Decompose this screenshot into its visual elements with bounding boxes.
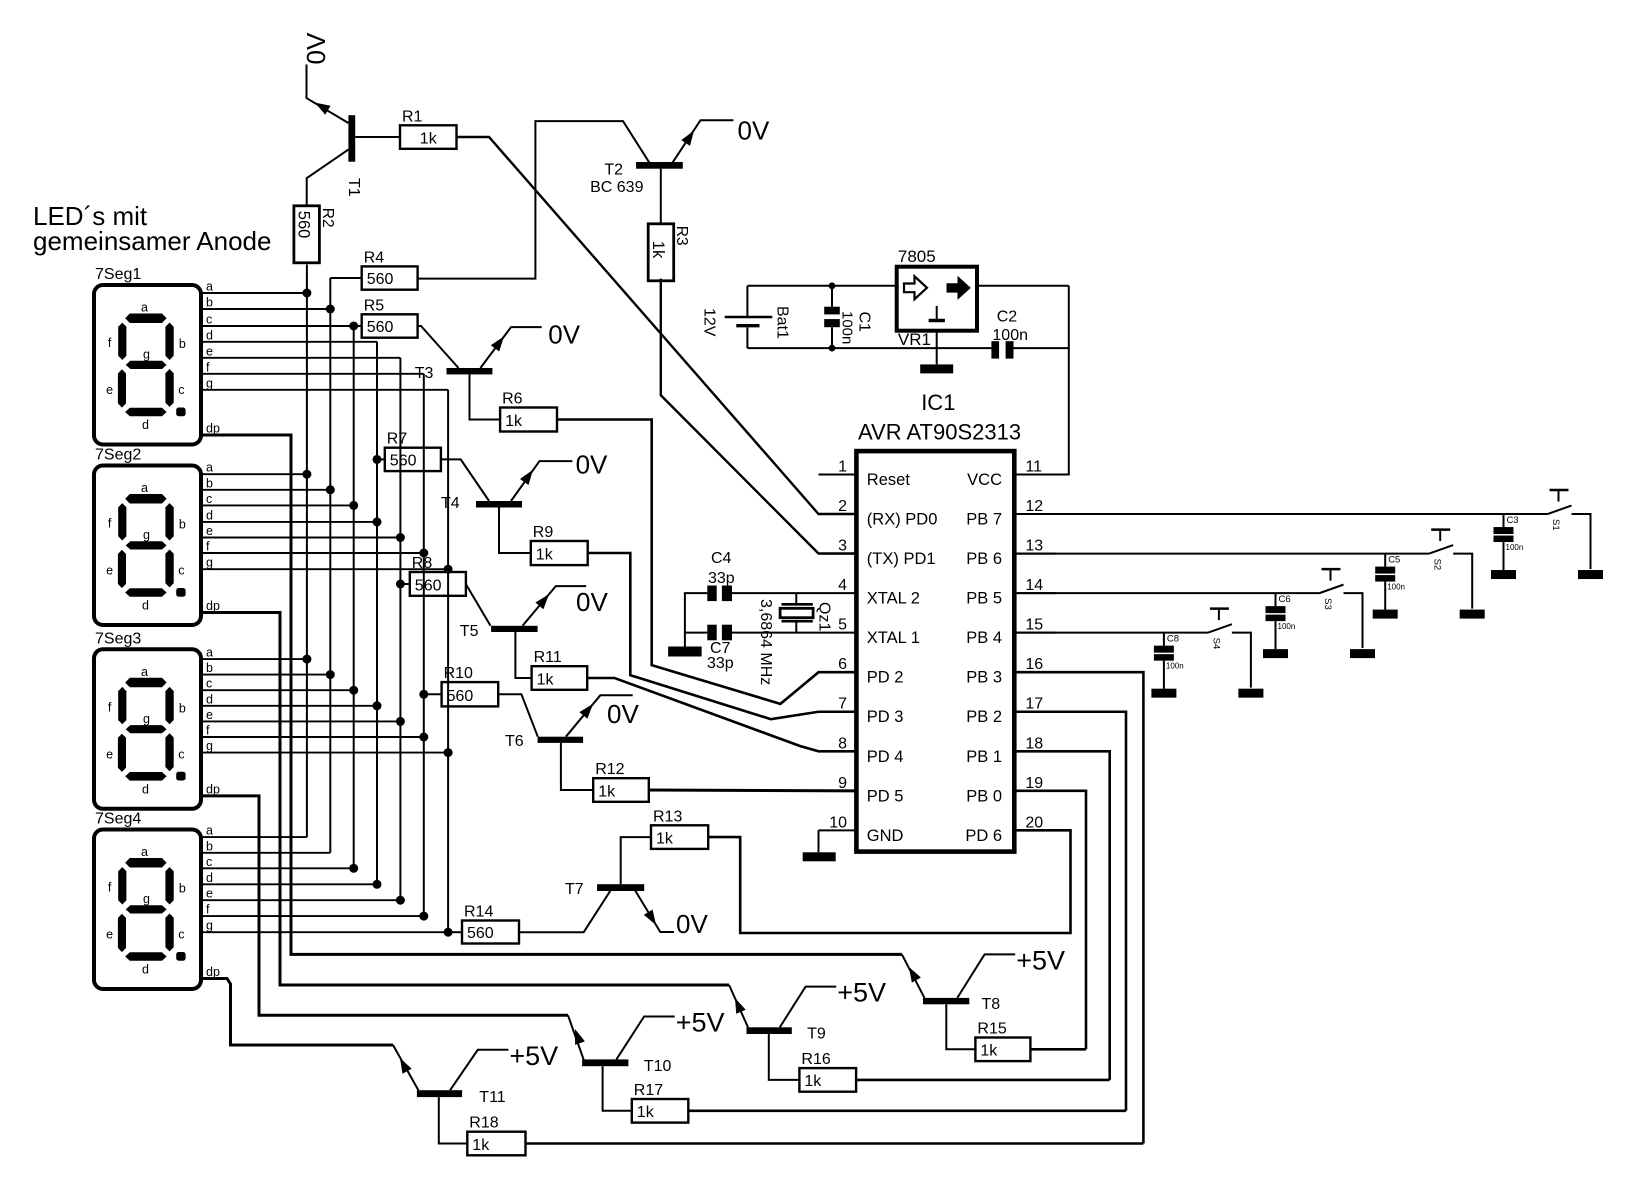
- node bus g 7Seg3: [444, 748, 453, 757]
- svg-text:1k: 1k: [980, 1043, 998, 1060]
- wire 7805 output rail: [977, 285, 1069, 287]
- svg-text:(RX) PD0: (RX) PD0: [867, 511, 938, 529]
- wire IC pin 15 to S4: [1014, 632, 1208, 634]
- svg-text:1k: 1k: [472, 1137, 490, 1154]
- wire 7Seg1 segment e: [201, 357, 400, 359]
- svg-text:IC1: IC1: [921, 390, 955, 415]
- svg-text:+5V: +5V: [509, 1041, 558, 1071]
- svg-text:7Seg4: 7Seg4: [95, 811, 141, 828]
- pin 5 XTAL 1: [819, 617, 921, 648]
- svg-text:R16: R16: [801, 1051, 830, 1068]
- 7-segment display 7Seg2: [94, 447, 220, 626]
- wire T10 collector to +5V: [616, 1017, 674, 1060]
- svg-text:d: d: [142, 599, 149, 613]
- svg-text:c: c: [206, 492, 212, 506]
- node bus g 7Seg4/R14: [444, 928, 453, 937]
- svg-text:2: 2: [838, 498, 847, 515]
- wire R3 to IC pin 3 (diagonal): [661, 279, 857, 554]
- svg-text:b: b: [206, 296, 213, 310]
- svg-text:b: b: [206, 839, 213, 853]
- svg-text:R9: R9: [533, 524, 554, 541]
- resistor R6: [500, 391, 557, 432]
- svg-text:g: g: [206, 739, 213, 753]
- transistor T4: [441, 470, 533, 512]
- transistor T2: [590, 131, 694, 197]
- wire S3 to ground: [1344, 593, 1363, 648]
- capacitor C1: [824, 286, 872, 348]
- svg-text:b: b: [206, 476, 213, 490]
- wire IC pin 13 to S2: [1014, 553, 1429, 555]
- transistor T5: [460, 594, 549, 640]
- svg-text:dp: dp: [206, 965, 220, 979]
- node bus b 7Seg2: [326, 485, 335, 494]
- pin 6 PD 2: [819, 656, 904, 687]
- node R8 tap: [396, 580, 405, 589]
- svg-text:a: a: [206, 461, 213, 475]
- node bus f 7Seg2: [419, 549, 428, 558]
- svg-text:R13: R13: [653, 808, 682, 825]
- wire 7Seg4 segment f: [201, 915, 424, 917]
- pin 11 VCC: [967, 459, 1056, 490]
- svg-text:560: 560: [447, 688, 474, 705]
- pin 20 PD 6: [965, 814, 1055, 845]
- svg-text:a: a: [141, 845, 148, 859]
- wire S4 to ground: [1232, 633, 1251, 688]
- svg-text:d: d: [206, 692, 213, 706]
- wire R18 to IC: [526, 1142, 1144, 1145]
- wire battery top rail: [747, 285, 896, 287]
- svg-text:33p: 33p: [708, 570, 735, 587]
- pin 8 PD 4: [819, 735, 904, 766]
- svg-text:e: e: [106, 564, 113, 578]
- svg-text:3,6864 MHz: 3,6864 MHz: [757, 599, 774, 685]
- resistor R3: [648, 224, 690, 281]
- wire IC pin 19 to R15: [1014, 791, 1086, 1049]
- svg-text:12V: 12V: [701, 308, 718, 337]
- svg-text:R12: R12: [595, 761, 624, 778]
- wire 7Seg4 segment e: [201, 899, 400, 901]
- pin 4 XTAL 2: [819, 577, 921, 608]
- node bus a 7Seg1: [302, 289, 311, 298]
- wire R14 to T7 collector: [519, 889, 611, 932]
- svg-text:d: d: [142, 963, 149, 977]
- svg-text:T2: T2: [604, 162, 623, 179]
- svg-text:5: 5: [838, 617, 847, 634]
- resistor R10: [442, 665, 499, 706]
- wire R7 to T4 collector: [441, 459, 489, 501]
- svg-text:C1: C1: [856, 312, 873, 333]
- svg-text:c: c: [178, 383, 184, 397]
- resistor R15: [975, 1021, 1030, 1062]
- 7-segment display 7Seg3: [94, 630, 220, 809]
- svg-text:f: f: [108, 517, 112, 531]
- wire segment bus d: [376, 342, 378, 885]
- svg-text:PB 2: PB 2: [966, 708, 1002, 726]
- svg-text:S3: S3: [1322, 598, 1333, 610]
- svg-text:g: g: [143, 892, 150, 906]
- node bus d 7Seg4: [373, 880, 382, 889]
- svg-text:e: e: [206, 524, 213, 538]
- wire segment bus c: [353, 326, 355, 868]
- wire 7Seg1 segment d: [201, 341, 377, 343]
- svg-text:16: 16: [1025, 656, 1043, 673]
- svg-text:dp: dp: [206, 599, 220, 613]
- wire 7Seg3 segment b: [201, 674, 330, 676]
- svg-text:+5V: +5V: [837, 978, 886, 1008]
- svg-text:1k: 1k: [420, 130, 438, 147]
- svg-text:1k: 1k: [637, 1104, 655, 1121]
- node bus d 7Seg2: [373, 517, 382, 526]
- svg-text:PD 5: PD 5: [867, 787, 904, 805]
- svg-text:R1: R1: [402, 108, 423, 125]
- svg-text:C2: C2: [997, 308, 1018, 325]
- svg-text:g: g: [143, 348, 150, 362]
- ground (C8): [1151, 689, 1176, 698]
- resistor R12: [593, 761, 649, 802]
- IC IC1 AVR AT90S2313: [856, 390, 1021, 852]
- svg-text:13: 13: [1025, 538, 1043, 555]
- resistor R7: [385, 431, 441, 471]
- svg-text:f: f: [206, 903, 210, 917]
- node bus c 7Seg2: [349, 501, 358, 510]
- svg-text:R6: R6: [502, 391, 523, 408]
- svg-text:d: d: [142, 418, 149, 432]
- svg-text:d: d: [142, 782, 149, 796]
- wire 7Seg3 segment f: [201, 736, 424, 738]
- svg-text:PB 1: PB 1: [966, 748, 1002, 766]
- transistor T3: [415, 336, 504, 382]
- pin 18 PB 1: [966, 735, 1056, 766]
- svg-text:7Seg3: 7Seg3: [95, 630, 141, 647]
- svg-text:T5: T5: [460, 623, 479, 640]
- resistor R4: [362, 249, 418, 289]
- pin 12 PB 7: [966, 498, 1056, 528]
- node bus e 7Seg2: [396, 533, 405, 542]
- node C1 bottom: [829, 345, 836, 352]
- wire T9 collector to +5V: [780, 987, 836, 1028]
- wire 7Seg1 dp to T8 emitter: [201, 435, 902, 954]
- svg-text:d: d: [206, 871, 213, 885]
- wire T11 base to R18: [439, 1097, 468, 1143]
- svg-text:T4: T4: [441, 495, 460, 512]
- wire R13 to IC pin 20: [708, 830, 1070, 933]
- svg-text:PB 0: PB 0: [966, 787, 1002, 805]
- svg-text:a: a: [141, 665, 148, 679]
- svg-text:Reset: Reset: [867, 471, 911, 489]
- ground (C3): [1491, 570, 1516, 579]
- svg-text:R15: R15: [977, 1021, 1006, 1038]
- svg-text:+5V: +5V: [676, 1008, 725, 1038]
- 7-segment display 7Seg1: [94, 266, 220, 445]
- wire 7Seg4 segment d: [201, 883, 377, 885]
- resistor R9: [531, 524, 588, 565]
- node bus g 7Seg2: [444, 565, 453, 574]
- svg-text:b: b: [179, 337, 186, 351]
- svg-text:R18: R18: [469, 1115, 498, 1132]
- svg-text:b: b: [179, 518, 186, 532]
- svg-text:c: c: [178, 747, 184, 761]
- svg-text:100n: 100n: [1166, 662, 1184, 671]
- svg-text:R7: R7: [387, 431, 408, 448]
- wire T5 base to R11: [515, 632, 531, 678]
- wire segment bus g: [447, 390, 449, 932]
- svg-text:3: 3: [838, 538, 847, 555]
- wire 7Seg1 segment f: [201, 373, 424, 375]
- wire pin 5 XTAL1 to C7: [732, 632, 819, 634]
- svg-text:a: a: [206, 280, 213, 294]
- wire bus b to R4: [330, 277, 361, 279]
- resistor R18: [467, 1115, 525, 1156]
- wire 7Seg3 segment e: [201, 720, 400, 722]
- wire R8 to T5 collector: [466, 584, 491, 626]
- svg-text:T1: T1: [345, 178, 362, 197]
- svg-text:8: 8: [838, 735, 847, 752]
- wire T8 base to R15: [946, 1004, 975, 1049]
- wire T10 base to R17: [603, 1066, 632, 1111]
- svg-text:S4: S4: [1210, 638, 1221, 650]
- svg-text:7Seg1: 7Seg1: [95, 266, 141, 283]
- wire T9 emitter: [729, 985, 748, 1027]
- wire T5 emitter to 0V: [523, 586, 587, 626]
- svg-text:c: c: [206, 677, 212, 691]
- svg-text:100n: 100n: [1387, 583, 1405, 592]
- svg-text:e: e: [106, 747, 113, 761]
- wire R12 to IC pin 9: [649, 789, 857, 793]
- wire T7 base to R13: [621, 837, 651, 884]
- wire battery bottom rail: [747, 347, 991, 349]
- svg-text:1k: 1k: [536, 547, 554, 564]
- wire R17 to IC: [688, 1110, 1126, 1113]
- svg-text:PB 6: PB 6: [966, 550, 1002, 568]
- resistor R2: [294, 206, 336, 263]
- svg-text:PD 3: PD 3: [867, 708, 904, 726]
- svg-text:0V: 0V: [607, 699, 639, 729]
- wire bus g to R14: [448, 931, 462, 933]
- svg-text:7805: 7805: [898, 247, 936, 266]
- wire bus d to R7: [377, 458, 385, 460]
- ground (S4): [1238, 689, 1263, 698]
- pin 17 PB 2: [966, 696, 1056, 727]
- note: LED's mit gemeinsamer Anode: [33, 201, 271, 256]
- wire S1 to ground: [1572, 514, 1591, 569]
- resistor R17: [632, 1082, 689, 1123]
- node bus a 7Seg3: [302, 655, 311, 664]
- svg-text:R17: R17: [634, 1082, 663, 1099]
- svg-text:1k: 1k: [537, 671, 555, 688]
- svg-text:1k: 1k: [656, 830, 674, 847]
- svg-text:BC 639: BC 639: [590, 179, 643, 196]
- svg-text:10: 10: [829, 814, 847, 831]
- svg-text:100n: 100n: [839, 311, 856, 344]
- wire IC pin 16 to R18: [1014, 672, 1143, 1143]
- svg-text:T6: T6: [505, 733, 524, 750]
- svg-text:AVR AT90S2313: AVR AT90S2313: [858, 420, 1021, 445]
- resistor R16: [799, 1051, 856, 1092]
- switch S1: [1548, 490, 1572, 531]
- svg-text:7Seg2: 7Seg2: [95, 447, 141, 464]
- voltage regulator VR1 7805: [897, 247, 977, 349]
- svg-text:100n: 100n: [1278, 622, 1296, 631]
- svg-text:e: e: [206, 708, 213, 722]
- svg-text:VR1: VR1: [898, 330, 931, 349]
- capacitor C3: [1494, 514, 1524, 570]
- wire 7Seg4 dp to T11 emitter: [201, 979, 393, 1046]
- svg-text:T8: T8: [982, 996, 1001, 1013]
- node R7 tap: [373, 455, 382, 464]
- transistor T1: [315, 103, 362, 197]
- 7-segment display 7Seg4: [94, 811, 220, 990]
- wire pin 10 GND: [818, 830, 820, 852]
- wire R6 to IC pin 6: [557, 420, 856, 704]
- crystal Qz1: [757, 593, 833, 685]
- svg-text:1k: 1k: [649, 241, 667, 259]
- resistor R13: [651, 808, 708, 849]
- svg-text:R2: R2: [319, 208, 336, 228]
- svg-text:0V: 0V: [738, 116, 770, 146]
- wire T3 emitter to 0V: [480, 327, 541, 368]
- svg-text:6: 6: [838, 656, 847, 673]
- wire 7Seg4 segment b: [201, 852, 330, 854]
- wire T1 collector to R2: [307, 150, 349, 206]
- node bus f 7Seg4: [419, 912, 428, 921]
- svg-text:15: 15: [1025, 617, 1043, 634]
- pin 14 PB 5: [966, 577, 1056, 608]
- pin 10 GND: [819, 814, 904, 845]
- transistor T8: [909, 967, 1000, 1013]
- svg-text:PB 5: PB 5: [966, 590, 1002, 608]
- svg-text:PB 7: PB 7: [966, 511, 1002, 529]
- wire 7Seg2 segment a: [201, 473, 307, 475]
- wire IC pin 14 to S3: [1014, 592, 1319, 594]
- transistor T7: [565, 881, 656, 925]
- svg-text:f: f: [206, 724, 210, 738]
- svg-text:f: f: [206, 360, 210, 374]
- wire T11 collector to +5V: [450, 1050, 508, 1090]
- svg-text:b: b: [179, 701, 186, 715]
- resistor R11: [532, 649, 588, 690]
- wire R5 to T3 collector: [418, 326, 459, 368]
- ground (IC1 GND): [803, 852, 836, 861]
- svg-text:S1: S1: [1550, 519, 1561, 531]
- wire T1 base to R1: [355, 136, 400, 138]
- transistor T9: [735, 998, 826, 1043]
- wire 7Seg4 segment a: [201, 836, 307, 838]
- svg-text:1k: 1k: [505, 413, 523, 430]
- wire bus c to R5: [354, 325, 362, 327]
- svg-text:14: 14: [1025, 577, 1043, 594]
- node bus d 7Seg3: [373, 701, 382, 710]
- pin 16 PB 3: [966, 656, 1056, 687]
- ground (C5): [1373, 610, 1398, 619]
- node bus c 7Seg3: [349, 686, 358, 695]
- svg-text:b: b: [206, 661, 213, 675]
- svg-text:PB 3: PB 3: [966, 669, 1002, 687]
- switch S2: [1429, 530, 1453, 571]
- ground (crystal): [668, 647, 702, 657]
- svg-text:33p: 33p: [707, 655, 734, 672]
- capacitor C2: [991, 308, 1028, 358]
- wire T7 emitter to 0V: [634, 889, 674, 932]
- wire segment bus f: [423, 374, 425, 916]
- svg-text:c: c: [178, 564, 184, 578]
- svg-text:f: f: [206, 540, 210, 554]
- pin 15 PB 4: [966, 617, 1056, 648]
- svg-text:VCC: VCC: [967, 471, 1002, 489]
- svg-text:560: 560: [294, 211, 312, 239]
- svg-text:c: c: [178, 928, 184, 942]
- svg-text:PB 4: PB 4: [966, 629, 1002, 647]
- resistor R8: [410, 555, 466, 596]
- svg-text:a: a: [206, 646, 213, 660]
- svg-text:7: 7: [838, 696, 847, 713]
- wire T11 emitter: [393, 1045, 418, 1090]
- svg-text:C5: C5: [1388, 555, 1400, 566]
- ground (C6): [1263, 649, 1288, 658]
- svg-text:T11: T11: [479, 1089, 505, 1106]
- wire C7 left: [685, 632, 707, 634]
- svg-text:1k: 1k: [598, 783, 616, 800]
- svg-text:0V: 0V: [301, 32, 331, 64]
- svg-text:dp: dp: [206, 422, 220, 436]
- wire T4 emitter to 0V: [511, 461, 572, 501]
- wire 7Seg2 segment e: [201, 537, 400, 539]
- svg-text:e: e: [106, 928, 113, 942]
- svg-text:gemeinsamer Anode: gemeinsamer Anode: [33, 226, 271, 256]
- svg-text:XTAL 2: XTAL 2: [867, 590, 920, 608]
- svg-text:19: 19: [1025, 775, 1043, 792]
- svg-text:Bat1: Bat1: [774, 306, 791, 339]
- svg-text:PD 6: PD 6: [965, 827, 1002, 845]
- ground (7805): [920, 364, 953, 373]
- svg-text:f: f: [108, 700, 112, 714]
- node bus a 7Seg2: [302, 470, 311, 479]
- wire 7Seg1 segment b: [201, 308, 330, 310]
- svg-text:0V: 0V: [576, 587, 608, 617]
- svg-text:C8: C8: [1167, 634, 1179, 645]
- svg-text:f: f: [108, 881, 112, 895]
- pin 13 PB 6: [966, 538, 1056, 569]
- wire pin 4 XTAL2 to C4: [732, 592, 819, 594]
- svg-text:a: a: [141, 301, 148, 315]
- wire T4 base to R9: [499, 508, 531, 554]
- capacitor C4: [707, 550, 734, 601]
- wire bus e to R8: [400, 583, 409, 585]
- wire 7Seg2 segment d: [201, 521, 377, 523]
- svg-text:560: 560: [367, 319, 394, 336]
- node bus c 7Seg4: [349, 864, 358, 873]
- capacitor C5: [1375, 554, 1405, 610]
- pin 1 Reset: [819, 459, 911, 490]
- wire T3 base to R6: [470, 374, 501, 419]
- resistor R5: [362, 297, 418, 337]
- svg-text:T9: T9: [807, 1026, 826, 1043]
- wire R15 to IC: [1030, 1048, 1086, 1051]
- svg-text:c: c: [206, 313, 212, 327]
- transistor T10: [575, 1029, 671, 1075]
- svg-text:g: g: [206, 556, 213, 570]
- ground (S3): [1350, 649, 1375, 658]
- wire R11 to IC pin 8: [587, 678, 856, 751]
- wire 7Seg2 segment f: [201, 552, 424, 554]
- svg-text:e: e: [206, 344, 213, 358]
- wire 7Seg3 segment g: [201, 752, 448, 754]
- svg-text:R11: R11: [534, 649, 562, 666]
- capacitor C6: [1266, 593, 1296, 649]
- svg-text:100n: 100n: [1506, 543, 1524, 552]
- pin 19 PB 0: [966, 775, 1056, 806]
- wire segment bus b: [329, 278, 331, 853]
- svg-text:e: e: [206, 887, 213, 901]
